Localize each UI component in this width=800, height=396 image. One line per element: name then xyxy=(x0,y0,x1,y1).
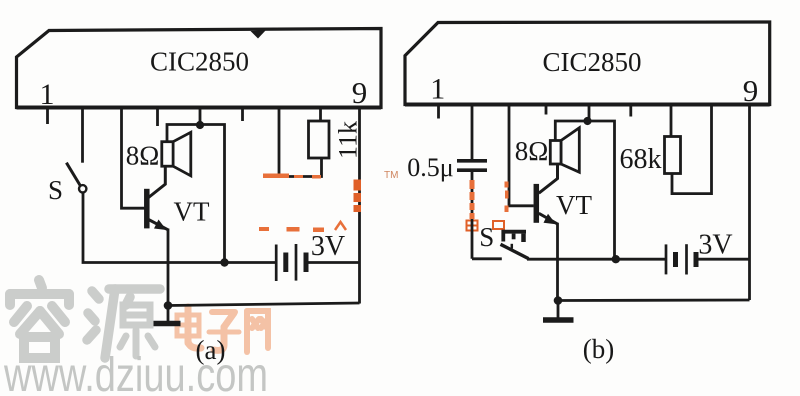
speaker LS1 8ohm (a) xyxy=(162,132,191,176)
notch mark on U1 top edge xyxy=(251,30,267,39)
pin 6 stub (a) xyxy=(241,108,244,121)
wire pin7 to resistor bottom (a) xyxy=(279,108,322,177)
watermark 电 (salmon) xyxy=(177,307,201,348)
svg-text:9: 9 xyxy=(352,75,368,110)
node pin5 junction dot (b) xyxy=(583,117,591,125)
watermark 网 (salmon) xyxy=(247,311,268,352)
switch S (b) pushbutton xyxy=(472,230,529,259)
orange remnant glyph near S of circuit b xyxy=(467,221,505,231)
orange watermark remnant row under circuit a resistor xyxy=(263,174,321,179)
switch S (a) xyxy=(66,163,86,261)
speaker LS2 8ohm (b) xyxy=(550,128,579,172)
pin 6 stub (b) xyxy=(629,105,632,117)
bottom wire (a) xyxy=(168,303,360,306)
resistor R1 11k (a) xyxy=(309,121,330,158)
watermark 源 (gray) xyxy=(87,289,160,358)
pin 4 stub (a) xyxy=(156,108,159,126)
wire pin9 down right side (a) xyxy=(358,108,361,304)
node pin5 junction dot (a) xyxy=(196,121,204,129)
node emitter/ground junction dot (b) xyxy=(554,296,563,305)
wire resistor bottom to pin8 (b) xyxy=(672,105,712,194)
wire switch to battery (a) xyxy=(83,261,276,263)
wire pin2 to switch (a) xyxy=(81,108,84,163)
node emitter/ground junction dot (a) xyxy=(164,301,173,310)
orange remnant dashes on capacitor wire of circuit b xyxy=(470,180,509,219)
svg-text:VT: VT xyxy=(556,190,592,220)
watermark 子 (salmon) xyxy=(209,312,239,350)
svg-text:S: S xyxy=(479,222,494,252)
wire battery to right side (a) xyxy=(306,261,360,264)
svg-text:3V: 3V xyxy=(311,231,345,262)
svg-text:1: 1 xyxy=(40,78,55,111)
svg-text:11k: 11k xyxy=(334,121,363,159)
bottom wire (b) xyxy=(558,299,750,302)
op-amp IC U2 CIC2850 (circuit b) body xyxy=(405,22,770,105)
svg-text:9: 9 xyxy=(743,73,759,108)
node battery wire junction dot (a) xyxy=(220,258,228,266)
wire pin5 to speaker node (b) xyxy=(588,105,591,121)
orange remnant caret xyxy=(335,222,346,230)
battery BT2 3V (b) xyxy=(666,244,696,274)
wire pin2 to capacitor (b) xyxy=(471,105,474,160)
wire speaker top to node and down to battery wire (a) xyxy=(167,125,225,263)
wire speaker top to node and down to battery wire (b) xyxy=(555,121,614,259)
svg-text:8Ω: 8Ω xyxy=(126,141,160,171)
orange remnant dash row middle xyxy=(259,227,324,232)
svg-text:CIC2850: CIC2850 xyxy=(542,47,641,77)
svg-text:www.dziuu.com: www.dziuu.com xyxy=(3,349,268,396)
resistor R2 68k (b) xyxy=(665,137,681,174)
wire pin7 to resistor top (b) xyxy=(670,105,673,138)
node battery wire junction dot (b) xyxy=(612,255,620,263)
svg-text:68k: 68k xyxy=(620,144,662,175)
pin 1 stub (a) xyxy=(46,108,49,124)
wire pin5 to speaker node (a) xyxy=(199,108,202,125)
pin 1 stub (b) xyxy=(437,105,440,119)
wire pin9 down right side (b) xyxy=(748,105,751,300)
pin 4 stub (b) xyxy=(545,105,548,115)
svg-text:TM: TM xyxy=(384,170,398,181)
transistor Q2 VT (b) xyxy=(536,164,557,300)
svg-text:CIC2850: CIC2850 xyxy=(150,47,249,77)
op-amp IC U1 CIC2850 (circuit a) body xyxy=(17,29,382,108)
wire pin3 to transistor base (a) xyxy=(122,108,145,208)
wire pin8 to resistor top (a) xyxy=(319,108,322,122)
svg-text:0.5μ: 0.5μ xyxy=(407,153,453,182)
svg-text:3V: 3V xyxy=(698,230,732,261)
ground (a) xyxy=(154,306,181,324)
wire pin3 to transistor base (b) xyxy=(509,105,534,206)
emitter arrowhead Q1 xyxy=(154,220,167,231)
transistor Q1 VT (a) xyxy=(147,166,168,305)
svg-text:(b): (b) xyxy=(583,334,614,364)
orange remnant blob on pin9 wire of circuit a xyxy=(354,180,362,213)
wire switch to battery (b) xyxy=(527,258,666,261)
wire battery to right side (b) xyxy=(696,258,750,261)
svg-text:VT: VT xyxy=(174,197,210,227)
svg-text:8Ω: 8Ω xyxy=(515,136,549,166)
capacitor C1 0.5u (b) xyxy=(457,161,487,259)
svg-text:(a): (a) xyxy=(196,335,226,365)
svg-text:1: 1 xyxy=(430,73,445,106)
svg-text:S: S xyxy=(48,175,63,205)
battery BT1 3V (a) xyxy=(276,244,306,281)
emitter arrowhead Q2 xyxy=(544,214,557,225)
watermark 容 (gray, bottom-left) xyxy=(10,280,69,358)
ground (b) xyxy=(543,301,574,321)
